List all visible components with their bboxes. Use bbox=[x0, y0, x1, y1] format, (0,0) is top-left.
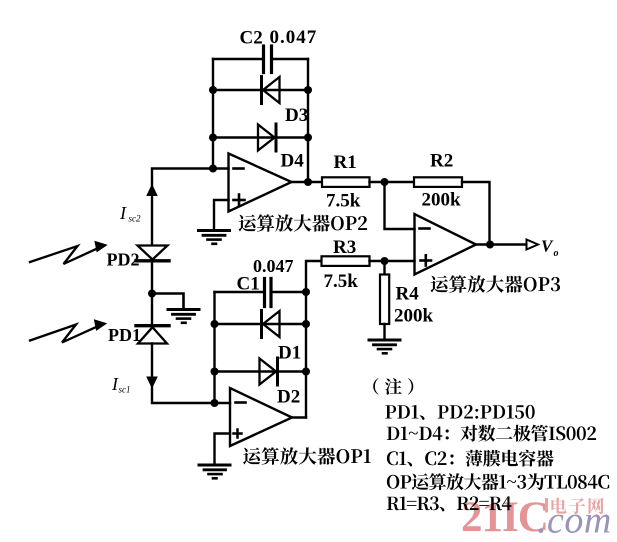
note line C1 C2 bbox=[387, 450, 554, 467]
diode D1 bbox=[262, 311, 280, 338]
node: D4 branch right bbox=[304, 134, 312, 142]
wire: midpoint to ground tap bbox=[152, 294, 184, 310]
ground (OP2 non-inverting input) bbox=[199, 231, 230, 244]
wire: D2 feedback branch bbox=[215, 370, 307, 372]
svg-text:I: I bbox=[119, 203, 127, 223]
node: D4 branch left bbox=[209, 134, 217, 142]
wire: photodiode chain bottom to OP1 inverting input bbox=[152, 344, 215, 404]
photodiode PD1 bbox=[136, 294, 169, 344]
svg-text:200k: 200k bbox=[394, 306, 434, 327]
svg-text:200k: 200k bbox=[422, 190, 462, 211]
wire: D4 feedback branch bbox=[213, 136, 308, 138]
svg-text:R1: R1 bbox=[334, 152, 357, 173]
label op-amp OP1 (CJK) bbox=[243, 447, 371, 465]
wire: photodiode chain top up to OP2 inverting input bbox=[152, 169, 213, 246]
note line PD1 PD2 bbox=[385, 405, 534, 420]
wire: OP1 output up to R3 (right feedback vertical) bbox=[306, 261, 322, 418]
photodiode PD2 bbox=[136, 246, 169, 294]
note line OP bbox=[387, 473, 609, 490]
node: photodiode midpoint junction bbox=[148, 290, 156, 298]
node: D3 branch right bbox=[304, 86, 312, 94]
resistor R1 7.5k bbox=[322, 177, 370, 187]
light arrow into PD1 bbox=[30, 320, 106, 343]
wire: OP1 non-inverting input to ground bbox=[215, 434, 231, 465]
op-amp OP1 bbox=[230, 388, 292, 446]
svg-text:PD1: PD1 bbox=[108, 325, 141, 345]
wire: OP1 feedback left vertical bbox=[213, 292, 215, 403]
label op-amp OP3 (CJK) bbox=[431, 275, 560, 293]
ground (photodiode midpoint) bbox=[168, 310, 199, 323]
svg-text:sc2: sc2 bbox=[129, 214, 141, 224]
wire: OP2 feedback right vertical bbox=[307, 59, 309, 182]
svg-text:C2: C2 bbox=[240, 28, 263, 49]
note title (注) bbox=[373, 378, 413, 395]
wire: R1 to R2 / OP3 node bbox=[370, 181, 415, 183]
svg-text:R4: R4 bbox=[396, 284, 420, 305]
wire: OP2 output to R1 bbox=[292, 181, 323, 183]
svg-text:V: V bbox=[541, 237, 554, 256]
capacitor C1 (top feedback branch) bbox=[215, 279, 307, 307]
ground (OP1 non-inverting input) bbox=[199, 465, 230, 478]
wire: junction down to OP3 inverting input bbox=[385, 182, 415, 229]
node: OP3 output junction bbox=[486, 241, 494, 249]
node: D2 branch left bbox=[211, 368, 219, 376]
node: OP1 inverting input junction bbox=[211, 399, 219, 407]
op-amp OP2 bbox=[229, 154, 292, 212]
svg-text:D2: D2 bbox=[277, 387, 300, 408]
wire: R2 to OP3 output bbox=[462, 182, 490, 245]
svg-text:o: o bbox=[554, 248, 559, 259]
capacitor C2 (top feedback branch) bbox=[213, 46, 308, 73]
resistor R3 7.5k bbox=[322, 256, 370, 266]
diode D3 bbox=[262, 77, 280, 104]
diode D4 bbox=[258, 124, 276, 151]
wire: stub into OP2 minus bbox=[213, 167, 229, 169]
svg-text:21IC: 21IC bbox=[461, 494, 548, 541]
node: D1 branch left bbox=[211, 320, 219, 328]
node: OP2 output junction bbox=[304, 178, 312, 186]
resistor R4 200k (vertical) bbox=[383, 261, 385, 275]
wire: D1 feedback branch bbox=[215, 323, 307, 325]
svg-text:7.5k: 7.5k bbox=[324, 271, 359, 292]
node: OP2 inverting input junction bbox=[209, 165, 217, 173]
label op-amp OP2 (CJK) bbox=[239, 214, 368, 232]
svg-text:D4: D4 bbox=[281, 151, 305, 172]
svg-text:R2: R2 bbox=[430, 151, 453, 172]
wire: OP3 output bbox=[476, 243, 527, 245]
output arrow Vo bbox=[527, 240, 539, 250]
wire: stub into OP1 minus bbox=[215, 402, 231, 404]
node: D2 branch right bbox=[302, 368, 310, 376]
svg-text:sc1: sc1 bbox=[119, 385, 131, 395]
svg-text:0.047: 0.047 bbox=[270, 27, 318, 48]
current arrow Isc2 (up) bbox=[147, 185, 157, 196]
op-amp OP3 bbox=[415, 214, 477, 275]
wire: OP2 feedback left vertical bbox=[212, 59, 214, 169]
svg-text:C1: C1 bbox=[237, 274, 260, 295]
wire: OP2 non-inverting input to ground bbox=[214, 200, 229, 230]
wire: R4 to ground bbox=[383, 324, 385, 340]
watermark 21IC.com logo bbox=[461, 494, 612, 542]
resistor R2 200k bbox=[414, 177, 462, 187]
node: D3 branch left bbox=[209, 86, 217, 94]
node: D1 branch right bbox=[302, 320, 310, 328]
node: R1/R2 junction bbox=[381, 178, 389, 186]
svg-text:7.5k: 7.5k bbox=[326, 191, 361, 212]
svg-text:R3: R3 bbox=[333, 237, 356, 258]
ground (R4) bbox=[369, 340, 400, 353]
wire: D3 feedback branch bbox=[213, 89, 308, 91]
note line D1-D4 bbox=[387, 425, 596, 442]
wire: R3 to OP3 non-inverting input bbox=[370, 260, 415, 262]
current arrow Isc1 (down) bbox=[147, 377, 157, 388]
node: C1 branch right bbox=[302, 288, 310, 296]
diode D2 bbox=[260, 358, 278, 385]
note line R1=R3 bbox=[387, 496, 512, 511]
node: R3/R4 junction bbox=[381, 257, 389, 265]
svg-text:D1: D1 bbox=[278, 343, 301, 364]
light arrow into PD2 bbox=[30, 242, 107, 265]
svg-text:D3: D3 bbox=[285, 105, 308, 126]
wire: OP1 output bbox=[292, 416, 306, 418]
